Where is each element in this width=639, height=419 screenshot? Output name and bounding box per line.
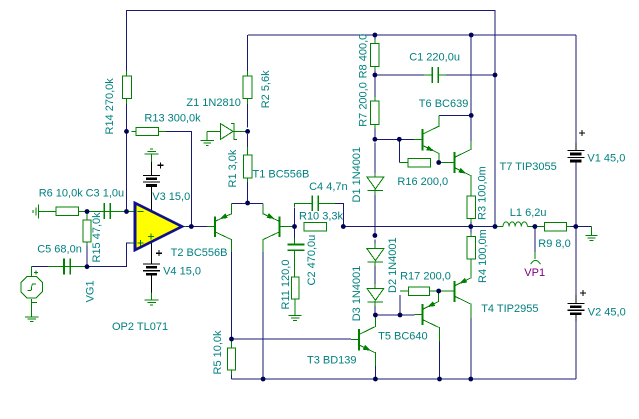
svg-text:C4 4,7n: C4 4,7n [309, 181, 348, 193]
svg-text:R6 10,0k: R6 10,0k [39, 188, 84, 200]
svg-text:C3 1,0u: C3 1,0u [86, 188, 125, 200]
svg-text:R9 8,0: R9 8,0 [538, 238, 570, 250]
svg-text:R1 3,0k: R1 3,0k [227, 149, 239, 187]
svg-text:T4 TIP2955: T4 TIP2955 [481, 303, 538, 315]
svg-text:Z1 1N2810: Z1 1N2810 [186, 97, 240, 109]
svg-text:T1 BC556B: T1 BC556B [253, 169, 310, 181]
svg-text:T6 BC639: T6 BC639 [419, 98, 469, 110]
svg-text:C5 68,0n: C5 68,0n [37, 244, 82, 256]
svg-text:V3 15,0: V3 15,0 [152, 191, 190, 203]
svg-text:D1 1N4001: D1 1N4001 [351, 147, 363, 203]
svg-text:R15 47,0k: R15 47,0k [91, 212, 103, 263]
svg-text:R14 270,0k: R14 270,0k [104, 78, 116, 135]
svg-text:R17 200,0: R17 200,0 [400, 270, 451, 282]
svg-text:T2 BC556B: T2 BC556B [171, 247, 228, 259]
svg-text:R3 100,0m: R3 100,0m [477, 166, 489, 220]
svg-text:OP2 TL071: OP2 TL071 [112, 321, 168, 333]
svg-text:C1 220,0u: C1 220,0u [409, 51, 460, 63]
svg-text:V1 45,0: V1 45,0 [587, 153, 625, 165]
svg-text:T7 TIP3055: T7 TIP3055 [500, 161, 557, 173]
svg-text:R13 300,0k: R13 300,0k [144, 113, 201, 125]
svg-text:L1 6,2u: L1 6,2u [510, 207, 547, 219]
svg-text:R2 5,6k: R2 5,6k [260, 70, 272, 108]
svg-text:T5 BC640: T5 BC640 [378, 331, 428, 343]
svg-text:R4 100,0m: R4 100,0m [477, 229, 489, 283]
svg-text:V4 15,0: V4 15,0 [163, 265, 201, 277]
svg-text:V2 45,0: V2 45,0 [588, 306, 626, 318]
svg-text:R11 120,0: R11 120,0 [280, 260, 292, 310]
svg-text:R7 200,0: R7 200,0 [358, 82, 370, 127]
svg-text:VG1: VG1 [85, 280, 97, 302]
svg-text:R5 10,0k: R5 10,0k [212, 330, 224, 375]
svg-text:D2 1N4001: D2 1N4001 [387, 237, 399, 293]
svg-text:C2 470,0u: C2 470,0u [306, 235, 318, 286]
svg-text:R10 3,3k: R10 3,3k [299, 211, 344, 223]
svg-text:R16 200,0: R16 200,0 [397, 176, 448, 188]
svg-text:R8 400,0: R8 400,0 [358, 34, 370, 79]
svg-text:T3 BD139: T3 BD139 [307, 354, 357, 366]
svg-text:D3 1N4001: D3 1N4001 [351, 266, 363, 322]
svg-text:VP1: VP1 [524, 267, 545, 279]
